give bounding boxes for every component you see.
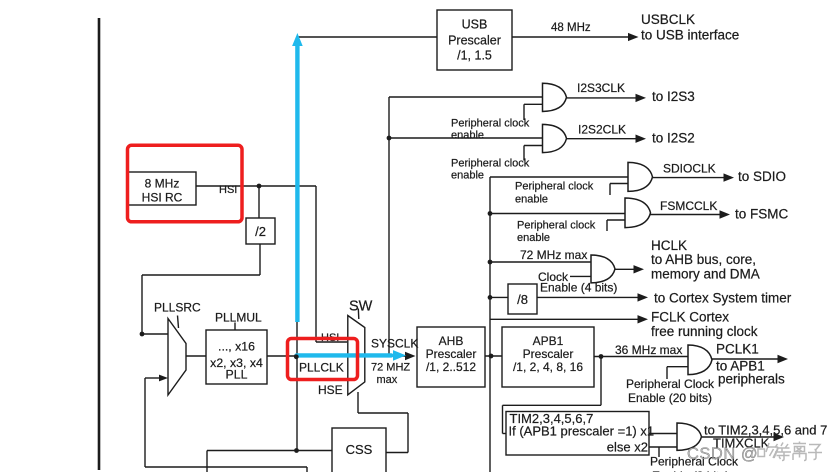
svg-text:CSS: CSS: [346, 442, 373, 457]
svg-text:to Cortex System timer: to Cortex System timer: [654, 291, 792, 306]
svg-text:/1, 2..512: /1, 2..512: [426, 360, 476, 374]
svg-text:Prescaler: Prescaler: [448, 34, 501, 48]
svg-text:SDIOCLK: SDIOCLK: [663, 162, 716, 176]
svg-text:enable: enable: [515, 194, 548, 206]
svg-text:enable: enable: [517, 232, 550, 244]
svg-text:72 MHZ: 72 MHZ: [371, 362, 410, 374]
svg-text:USB: USB: [462, 18, 488, 32]
svg-text:PLLCLK: PLLCLK: [299, 361, 344, 375]
svg-text:72 MHz max: 72 MHz max: [520, 248, 587, 262]
svg-text:Peripheral Clock: Peripheral Clock: [626, 377, 715, 391]
svg-text:HCLK: HCLK: [651, 238, 687, 253]
svg-text:free running clock: free running clock: [651, 324, 758, 339]
svg-text:to FSMC: to FSMC: [735, 207, 789, 222]
svg-text:PLL: PLL: [226, 368, 248, 382]
svg-text:Peripheral clock: Peripheral clock: [451, 158, 530, 170]
svg-text:to SDIO: to SDIO: [738, 169, 786, 184]
svg-text:I2S3CLK: I2S3CLK: [577, 81, 625, 95]
svg-text:Peripheral clock: Peripheral clock: [517, 220, 596, 232]
svg-text:else x2: else x2: [607, 440, 648, 455]
svg-text:Enable (20 bits): Enable (20 bits): [628, 391, 712, 405]
svg-text:8 MHz: 8 MHz: [145, 177, 180, 191]
svg-text:PLLMUL: PLLMUL: [215, 311, 262, 325]
svg-text:enable: enable: [451, 170, 484, 182]
svg-text:CSDN @: CSDN @: [687, 445, 758, 463]
svg-text:Peripheral clock: Peripheral clock: [515, 181, 594, 193]
svg-text:Prescaler: Prescaler: [523, 347, 574, 361]
svg-text:PLLSRC: PLLSRC: [154, 301, 201, 315]
svg-text:..., x16: ..., x16: [218, 340, 255, 354]
svg-text:to I2S2: to I2S2: [652, 131, 695, 146]
svg-text:36 MHz max: 36 MHz max: [615, 343, 682, 357]
svg-text:FCLK Cortex: FCLK Cortex: [651, 310, 729, 325]
svg-text:FSMCCLK: FSMCCLK: [660, 199, 717, 213]
svg-text:enable: enable: [451, 130, 484, 142]
svg-text:48 MHz: 48 MHz: [551, 22, 591, 34]
svg-text:Prescaler: Prescaler: [426, 347, 477, 361]
svg-text:/1, 2, 4, 8, 16: /1, 2, 4, 8, 16: [513, 360, 583, 374]
svg-text:HSI: HSI: [219, 184, 237, 196]
svg-text:/2: /2: [255, 224, 266, 239]
svg-text:If (APB1 prescaler =1) x1: If (APB1 prescaler =1) x1: [509, 424, 655, 439]
svg-text:to I2S3: to I2S3: [652, 89, 695, 104]
svg-text:to AHB bus, core,: to AHB bus, core,: [651, 252, 756, 267]
svg-text:/8: /8: [517, 292, 528, 307]
svg-text:PCLK1: PCLK1: [716, 342, 759, 357]
svg-text:USBCLK: USBCLK: [641, 12, 695, 27]
svg-text:max: max: [377, 374, 398, 386]
svg-text:/1, 1.5: /1, 1.5: [457, 49, 492, 63]
svg-text:I2S2CLK: I2S2CLK: [578, 123, 626, 137]
svg-text:Peripheral clock: Peripheral clock: [451, 118, 530, 130]
svg-text:APB1: APB1: [533, 334, 564, 348]
svg-text:peripherals: peripherals: [718, 372, 785, 387]
svg-text:memory and DMA: memory and DMA: [651, 267, 760, 282]
svg-text:SYSCLK: SYSCLK: [371, 337, 418, 351]
svg-text:SW: SW: [349, 299, 373, 315]
svg-text:AHB: AHB: [439, 334, 464, 348]
svg-text:HSE: HSE: [318, 383, 343, 397]
svg-text:to USB interface: to USB interface: [641, 28, 739, 43]
svg-text:Enable (4 bits): Enable (4 bits): [540, 281, 617, 295]
svg-text:HSI RC: HSI RC: [142, 191, 183, 205]
